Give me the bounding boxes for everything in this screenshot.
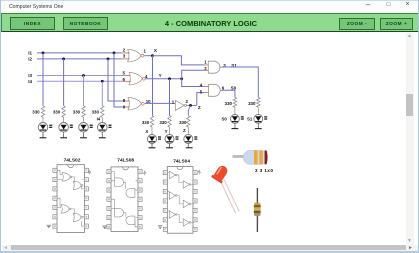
IC U3 internal inverter 4 [183,181,189,188]
resistor illustration band 3 dark red [265,150,268,164]
IC U2 internal wiring [111,172,138,227]
svg-text:I4: I4 [28,79,32,84]
LED D8 (S0) [231,115,240,124]
LED illustration leg 2 [224,179,239,211]
IC U3 internal inverter 6 [183,219,189,226]
IC U2 internal and gate C [115,208,124,217]
LED D7 emission marks [194,136,197,137]
IC U1 74LS02 body [57,165,84,233]
wire I1 to gate U1C pin 9 [114,53,123,107]
ground under LED D9 [257,125,259,128]
IC U3 internal inverter 2 [169,192,175,199]
svg-text:330: 330 [225,101,233,106]
LED D7 (Z) [184,135,193,144]
svg-text:4: 4 [145,74,148,79]
resistor R7 330 (Z) [187,116,190,128]
IC U3 internal wiring [167,173,193,223]
svg-text:I2: I2 [28,57,32,62]
toolbar [1,13,419,32]
wire column X [152,56,154,116]
wire R3 to LED D3 [83,117,85,122]
LED D6 emission marks [176,136,179,137]
close button [401,1,415,12]
pin 6 stub U1B [122,80,131,82]
output stub U2B pin 6 [220,89,222,91]
svg-text:5: 5 [200,89,203,94]
wire U1C output to U3A input [145,102,176,104]
wire R5 to LED D5 [151,127,153,134]
maximize button [382,2,396,13]
svg-text:Z: Z [198,105,201,110]
IC U3 left pins 1-7 [163,171,167,175]
wire I4 horizontal [37,80,122,82]
ZOOM plus button [380,18,413,30]
title bar [1,0,419,13]
wire R6 to LED D6 [169,127,171,134]
vertical scrollbar up arrow [407,33,414,40]
resistor illustration body [243,150,267,164]
svg-text:Z: Z [183,128,186,133]
svg-text:Y: Y [159,73,162,78]
svg-text:330: 330 [179,120,187,125]
LED D9 (S1) [254,115,263,124]
component photo resistor body [254,203,261,217]
component photo resistor wire [257,188,258,232]
svg-text:S0: S0 [231,85,237,90]
pin 2 stub U2A [204,69,208,71]
pin 9 stub U1C [123,106,130,108]
wire I2 column 2 [63,59,65,106]
power mark at U2 pin 14 [143,171,146,175]
IC U2 right pins 8-14 [138,170,142,174]
IC U2 internal and gate A [115,178,124,187]
junction I3-R3 [82,74,85,77]
LED D3 [79,123,89,133]
wire LED D3 to ground [83,132,85,137]
wire LED D1 to ground [42,132,44,137]
page title [111,17,311,30]
IC U2 internal and gate B [126,189,135,198]
wire I3 horizontal [37,75,122,77]
wire S1 to resistor R9 [222,67,258,97]
svg-text:2: 2 [186,99,189,104]
LED D2 emission marks [70,125,73,126]
svg-text:74LS08: 74LS08 [117,157,134,163]
power mark at U3 pin 14 [198,170,201,174]
ground under LED D6 [169,144,171,147]
junction I1 to U1C [113,52,116,55]
wire LED D6 to ground [169,144,171,148]
resistor illustration lead [233,155,245,158]
and gate U2A [208,61,220,73]
wire column Y [169,79,171,116]
IC U3 74LS04 body [167,167,193,234]
svg-text:I1: I1 [28,51,32,56]
junction I2 to U1C [107,58,110,61]
pin 5 stub U1B [122,75,131,77]
ground under LED D4 [101,134,103,137]
LED D6 (Y) [165,135,174,144]
svg-text:Y: Y [165,129,168,134]
svg-text:330: 330 [92,109,100,114]
IC U3 internal inverter 5 [183,200,189,207]
wire node X to U2A pin 1 [153,56,205,65]
wire LED D8 to ground [234,123,236,128]
LED D1 [38,123,48,133]
LED illustration leg 1 [220,181,235,213]
IC U2 left pins 1-7 [107,170,111,174]
vertical scrollbar thumb [406,94,413,116]
window bottom border [1,251,419,253]
resistor R5 330 (X) [150,116,153,128]
wire node Z to U2B pin 5 [197,93,205,106]
LED D3 emission marks [90,125,93,126]
IC U1 internal nor gate B [73,181,81,190]
ground under LED D2 [63,134,65,137]
junction I2-R2 [62,58,65,61]
minimize button [361,0,375,11]
pin 5 stub U2B [204,92,208,94]
wire I2 to gate U1C pin 8 [108,59,123,101]
pin 4 stub U2B [203,86,209,88]
node X junction [151,54,154,57]
LED D1 emission marks [49,125,52,126]
wire R1 to LED D1 [42,117,44,122]
resistor illustration band 1 orange [254,150,258,164]
NOTEBOOK button [63,17,108,30]
wire node Y to U2B pin 4 [182,79,203,87]
wire I1 horizontal [37,52,122,54]
svg-text:3 3 1x0: 3 3 1x0 [255,168,273,174]
svg-text:S0: S0 [222,117,228,122]
wire U1A output to node X [144,55,152,57]
svg-text:330: 330 [53,109,61,114]
inverter U3A [175,100,184,110]
IC U3 internal inverter 1 [169,171,175,178]
resistor R1 330 [41,106,44,118]
vertical scrollbar down arrow [407,238,414,245]
svg-text:330: 330 [248,101,256,106]
ground under LED D3 [83,134,85,137]
svg-text:5: 5 [123,71,126,76]
IC U1 right pins 8-14 [84,168,88,172]
svg-text:6: 6 [222,86,225,91]
node Y junction right [180,77,183,80]
wire LED D5 to ground [151,144,153,148]
LED illustration body [211,163,230,184]
svg-text:74LS04: 74LS04 [173,159,190,165]
wire I3 column 3 [83,76,85,106]
ground symbol at U1 pin 7 [47,225,51,228]
nor gate U1C [128,97,142,110]
pin 8 stub U1C [123,100,130,102]
ground symbol at U2 pin 7 [103,226,107,229]
horizontal scrollbar right arrow [408,245,415,252]
LED D5 emission marks [158,136,161,137]
wire LED D4 to ground [101,132,103,137]
output stub U2A pin 3 [220,66,222,68]
nor gate U1A [128,49,142,62]
ground under LED D7 [187,144,189,147]
wire node Y to U2A pin 2 [182,70,205,79]
junction I4-R4 [101,80,104,83]
vertical scrollbar track [406,33,414,245]
ZOOM minus button [339,18,375,30]
pin 1 stub U2A [204,64,208,66]
svg-text:330: 330 [32,109,40,114]
svg-text:X: X [145,129,148,134]
svg-text:1: 1 [144,49,147,54]
IC U3 right pins 8-14 [193,171,197,175]
resistor R2 330 [62,106,65,118]
svg-text:1: 1 [204,60,207,65]
svg-text:X: X [154,48,157,53]
LED D4 emission marks [109,125,112,126]
IC U1 internal nor gate A [62,173,70,182]
wire LED D2 to ground [63,132,65,137]
node Z junction [189,104,192,107]
ground under LED D1 [42,134,44,137]
wire column Z [188,105,190,115]
IC U1 internal nor gate D [73,213,81,222]
svg-text:330: 330 [159,120,167,125]
pin 3 stub U1A [122,58,130,60]
LED D4 [98,123,108,133]
LED D5 (X) [148,135,157,144]
IC U2 internal and gate D [126,216,135,225]
wire LED D7 to ground [187,144,189,148]
wire LED D9 to ground [257,123,259,128]
svg-text:I4: I4 [97,117,101,122]
wire R7 to LED D7 [187,127,189,134]
IC U1 internal wiring [57,170,84,226]
svg-text:S1: S1 [247,117,253,122]
svg-text:3: 3 [123,54,126,59]
resistor R3 330 [82,106,85,118]
IC U1 left pins 1-7 [53,168,57,172]
resistor R6 330 (Y) [168,116,171,128]
svg-text:2: 2 [123,47,126,52]
horizontal scrollbar track [2,245,419,251]
node Y junction left [168,77,171,80]
LED D9 emission marks [264,116,267,117]
and gate U2B [209,84,221,96]
wire I1 column 1 [42,53,44,106]
resistor R4 330 [101,106,104,118]
wire S0 to resistor R8 [222,90,235,97]
svg-text:330: 330 [73,109,81,114]
nor gate U1B [129,72,143,85]
wire R4 to LED D4 [101,117,103,122]
horizontal scrollbar thumb [11,245,406,250]
horizontal scrollbar left arrow [3,245,10,252]
ground symbol at U3 pin 7 [158,226,162,229]
svg-text:I3: I3 [28,73,32,78]
wire U3A output to node Z [187,104,197,106]
resistor R9 330 (S1) [257,97,260,107]
ground under LED D8 [234,125,236,128]
window title [9,4,63,10]
wire U1B output to node Y [146,78,182,80]
LED D8 emission marks [241,116,244,117]
IC U2 74LS08 body [111,167,138,232]
power mark at U1 pin 14 [88,171,91,175]
junction I1-R1 [42,52,45,55]
ground under LED D5 [151,144,153,147]
resistor R8 330 (S0) [233,97,236,107]
svg-text:74LS02: 74LS02 [64,157,81,163]
IC U1 internal nor gate C [61,205,69,214]
wire R9 to LED D9 [257,107,259,114]
component photo resistor bands [254,205,261,207]
IC U3 internal inverter 3 [169,211,175,218]
wire R2 to LED D2 [63,117,65,122]
INDEX button [10,17,55,30]
wire I4 column 4 [101,81,103,106]
pin 2 stub U1A [122,52,130,54]
wire R8 to LED D8 [234,107,236,114]
LED D2 [59,123,69,133]
svg-text:330: 330 [142,120,150,125]
wire I2 horizontal [37,58,122,60]
resistor illustration band 2 orange [259,150,263,164]
